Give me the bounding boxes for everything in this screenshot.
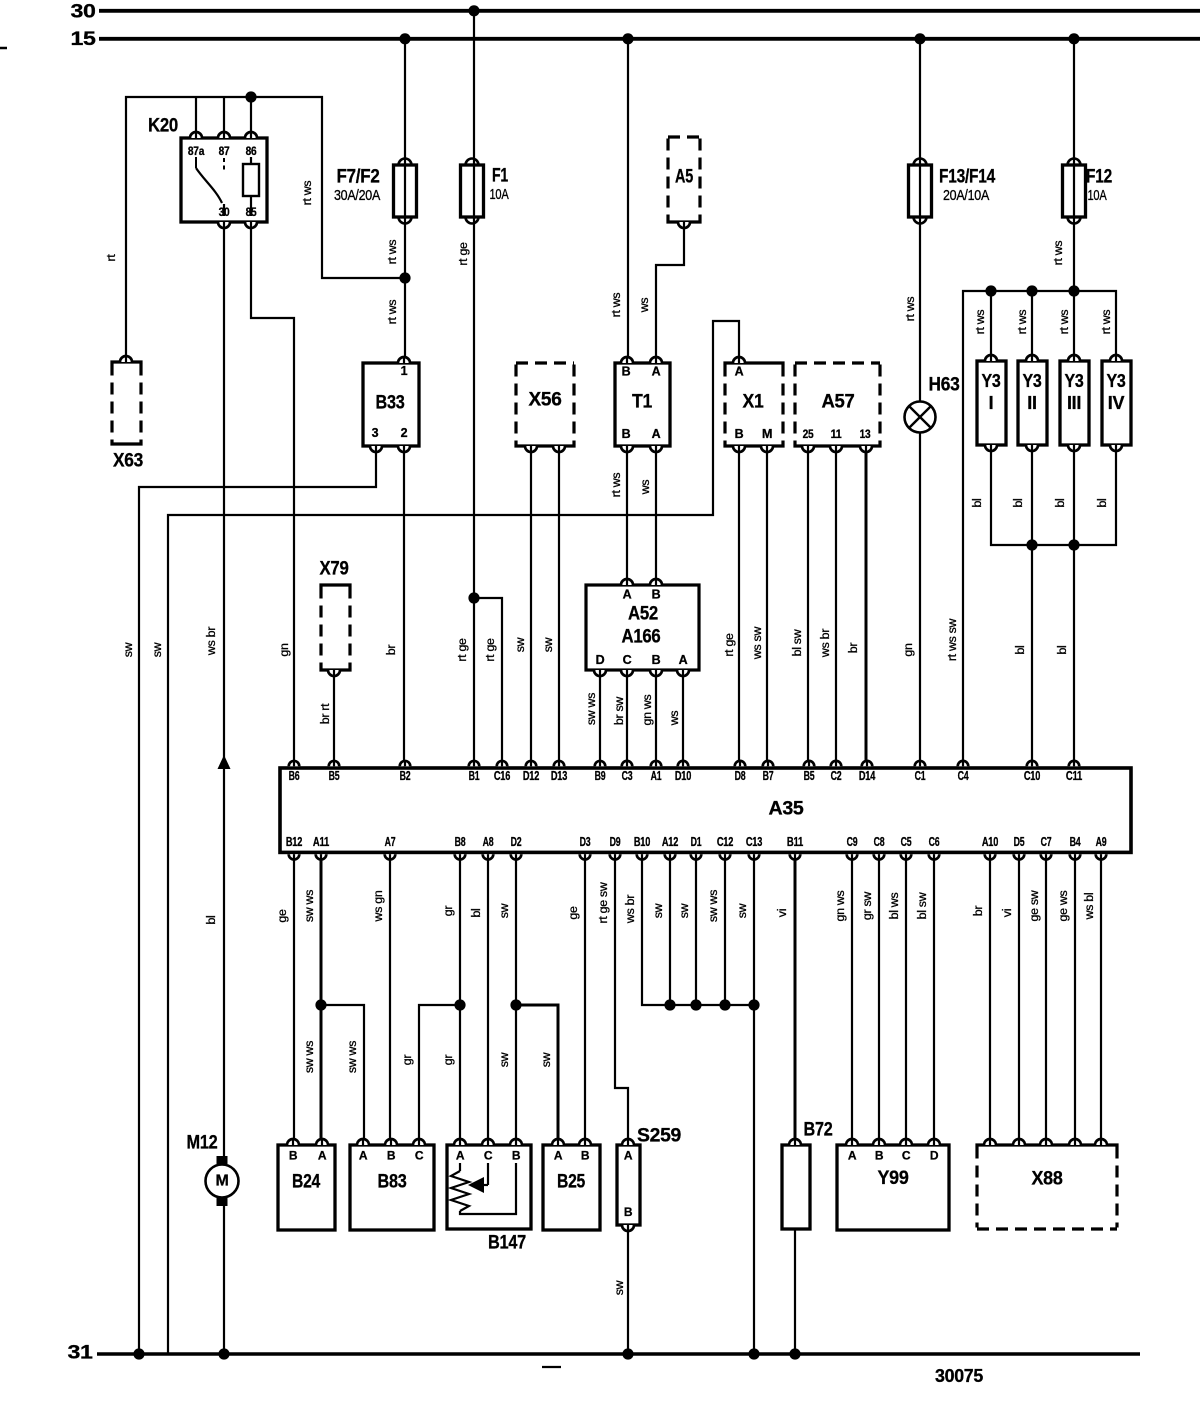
svg-text:ws br: ws br — [204, 627, 218, 656]
svg-text:bl ws: bl ws — [887, 893, 901, 920]
svg-text:A57: A57 — [822, 392, 855, 413]
svg-text:A9: A9 — [1096, 835, 1107, 849]
svg-text:gn ws: gn ws — [640, 694, 654, 725]
svg-text:C3: C3 — [622, 769, 633, 783]
svg-text:gr: gr — [400, 1055, 414, 1066]
svg-text:A10: A10 — [982, 835, 998, 849]
svg-text:C: C — [484, 1149, 493, 1163]
svg-text:C11: C11 — [1066, 769, 1082, 783]
svg-text:sw: sw — [497, 903, 511, 918]
svg-text:br: br — [846, 643, 860, 654]
svg-text:C: C — [902, 1149, 911, 1163]
svg-text:M12: M12 — [187, 1133, 218, 1154]
svg-text:rt ge: rt ge — [722, 633, 736, 657]
svg-text:D: D — [930, 1149, 939, 1163]
svg-text:B8: B8 — [455, 835, 466, 849]
svg-text:B: B — [581, 1149, 590, 1163]
svg-text:T1: T1 — [632, 392, 653, 413]
svg-text:F13/F14: F13/F14 — [939, 167, 996, 188]
svg-text:bl: bl — [1053, 498, 1067, 507]
svg-text:B: B — [289, 1149, 298, 1163]
svg-text:rt ws: rt ws — [1051, 241, 1065, 266]
svg-text:86: 86 — [246, 144, 257, 158]
svg-text:rt ws: rt ws — [1057, 310, 1071, 335]
svg-text:B2: B2 — [400, 769, 411, 783]
svg-text:rt ge sw: rt ge sw — [596, 882, 610, 923]
svg-text:F12: F12 — [1086, 167, 1112, 188]
svg-text:D3: D3 — [580, 835, 591, 849]
svg-text:C8: C8 — [874, 835, 885, 849]
svg-text:B12: B12 — [286, 835, 302, 849]
svg-text:vi: vi — [1000, 909, 1014, 917]
svg-text:F1: F1 — [492, 166, 509, 187]
svg-text:IV: IV — [1108, 393, 1125, 413]
svg-text:br: br — [971, 906, 985, 917]
svg-text:rt ws: rt ws — [385, 240, 399, 265]
svg-text:B: B — [652, 588, 661, 602]
svg-text:A: A — [359, 1149, 368, 1163]
svg-text:rt ws: rt ws — [1099, 310, 1113, 335]
svg-text:B: B — [735, 427, 744, 441]
svg-text:sw: sw — [539, 1052, 553, 1067]
svg-text:A: A — [679, 653, 688, 667]
svg-text:br: br — [384, 645, 398, 656]
svg-text:ge: ge — [275, 909, 289, 923]
svg-text:F7/F2: F7/F2 — [337, 167, 380, 188]
svg-text:B9: B9 — [595, 769, 606, 783]
svg-text:B: B — [652, 653, 661, 667]
svg-text:ws sw: ws sw — [750, 627, 764, 661]
svg-text:87a: 87a — [188, 144, 205, 158]
svg-text:B: B — [875, 1149, 884, 1163]
svg-text:ge: ge — [566, 906, 580, 920]
svg-text:15: 15 — [71, 29, 97, 50]
svg-text:sw: sw — [677, 903, 691, 918]
svg-text:D8: D8 — [735, 769, 746, 783]
svg-text:C9: C9 — [847, 835, 858, 849]
svg-text:sw: sw — [612, 1280, 626, 1295]
svg-text:gr: gr — [441, 906, 455, 917]
svg-text:11: 11 — [831, 427, 842, 441]
svg-text:2: 2 — [401, 426, 408, 440]
svg-text:X88: X88 — [1032, 1169, 1063, 1190]
svg-text:sw ws: sw ws — [584, 693, 598, 725]
svg-text:sw: sw — [150, 642, 164, 657]
svg-text:B: B — [622, 365, 631, 379]
svg-text:C12: C12 — [717, 835, 733, 849]
svg-text:B1: B1 — [469, 769, 480, 783]
svg-text:30A/20A: 30A/20A — [334, 188, 381, 204]
svg-text:B5: B5 — [804, 769, 815, 783]
svg-text:A: A — [624, 1149, 633, 1163]
svg-text:30: 30 — [71, 2, 96, 23]
svg-text:B7: B7 — [763, 769, 774, 783]
svg-text:rt ws: rt ws — [385, 300, 399, 325]
svg-text:bl: bl — [1013, 645, 1027, 654]
svg-text:sw ws: sw ws — [302, 890, 316, 922]
svg-text:87: 87 — [219, 144, 230, 158]
svg-text:sw ws: sw ws — [345, 1041, 359, 1073]
svg-text:B72: B72 — [804, 1120, 833, 1141]
svg-text:gn ws: gn ws — [833, 890, 847, 921]
svg-text:A: A — [735, 365, 744, 379]
svg-text:D13: D13 — [551, 769, 567, 783]
svg-text:A12: A12 — [662, 835, 678, 849]
svg-text:rt ws: rt ws — [973, 310, 987, 335]
svg-text:B5: B5 — [329, 769, 340, 783]
svg-text:sw: sw — [735, 903, 749, 918]
svg-text:sw ws: sw ws — [302, 1041, 316, 1073]
svg-text:B83: B83 — [378, 1172, 407, 1193]
svg-text:B33: B33 — [376, 393, 405, 414]
svg-text:II: II — [1027, 393, 1036, 413]
svg-text:ws: ws — [638, 480, 652, 496]
svg-text:A1: A1 — [651, 769, 662, 783]
svg-text:X79: X79 — [320, 559, 349, 580]
svg-text:B147: B147 — [488, 1233, 526, 1254]
svg-text:rt ws: rt ws — [1015, 310, 1029, 335]
svg-text:bl: bl — [1011, 498, 1025, 507]
svg-text:sw: sw — [513, 637, 527, 652]
svg-text:10A: 10A — [1088, 188, 1107, 204]
svg-text:C13: C13 — [746, 835, 762, 849]
svg-text:ws: ws — [667, 711, 681, 727]
svg-text:D2: D2 — [511, 835, 522, 849]
svg-text:C2: C2 — [831, 769, 842, 783]
svg-text:A7: A7 — [385, 835, 396, 849]
svg-text:D: D — [596, 653, 605, 667]
svg-text:Y3: Y3 — [982, 371, 1001, 391]
svg-text:B4: B4 — [1070, 835, 1081, 849]
svg-text:ge sw: ge sw — [1027, 890, 1041, 921]
svg-text:ws br: ws br — [818, 629, 832, 658]
svg-text:S259: S259 — [637, 1126, 681, 1147]
svg-text:rt: rt — [104, 254, 118, 262]
svg-text:Y3: Y3 — [1023, 371, 1042, 391]
svg-text:Y3: Y3 — [1107, 371, 1126, 391]
svg-text:bl: bl — [204, 915, 218, 924]
svg-text:D12: D12 — [523, 769, 539, 783]
svg-text:A: A — [848, 1149, 857, 1163]
svg-text:B6: B6 — [289, 769, 300, 783]
svg-text:A8: A8 — [483, 835, 494, 849]
svg-text:rt ws: rt ws — [609, 293, 623, 318]
svg-text:ge ws: ge ws — [1056, 890, 1070, 921]
svg-text:A: A — [652, 427, 661, 441]
svg-text:sw: sw — [541, 637, 555, 652]
svg-text:br sw: br sw — [612, 697, 626, 725]
svg-text:B: B — [387, 1149, 396, 1163]
svg-text:bl: bl — [970, 498, 984, 507]
svg-text:gr: gr — [441, 1055, 455, 1066]
svg-text:Y3: Y3 — [1065, 371, 1084, 391]
svg-text:C6: C6 — [929, 835, 940, 849]
svg-text:A35: A35 — [769, 799, 805, 820]
svg-text:C1: C1 — [915, 769, 926, 783]
svg-text:rt ge: rt ge — [455, 638, 469, 662]
svg-text:bl: bl — [1055, 645, 1069, 654]
svg-text:B10: B10 — [634, 835, 650, 849]
svg-text:3: 3 — [372, 426, 379, 440]
svg-text:M: M — [216, 1173, 229, 1190]
svg-text:rt ws: rt ws — [300, 181, 314, 206]
svg-text:rt ws sw: rt ws sw — [945, 618, 959, 661]
svg-text:bl: bl — [1095, 498, 1109, 507]
svg-text:B25: B25 — [557, 1172, 586, 1193]
svg-text:bl sw: bl sw — [915, 892, 929, 919]
svg-text:20A/10A: 20A/10A — [943, 188, 990, 204]
svg-text:C5: C5 — [901, 835, 912, 849]
svg-text:D1: D1 — [691, 835, 702, 849]
svg-text:gn: gn — [901, 643, 915, 657]
svg-text:10A: 10A — [490, 187, 509, 203]
svg-text:br rt: br rt — [318, 703, 332, 724]
svg-text:gn: gn — [277, 643, 291, 657]
svg-text:C: C — [415, 1149, 424, 1163]
svg-text:rt ge: rt ge — [456, 242, 470, 266]
svg-text:sw: sw — [497, 1052, 511, 1067]
svg-text:sw: sw — [651, 903, 665, 918]
svg-text:rt ws: rt ws — [903, 297, 917, 322]
svg-text:30075: 30075 — [935, 1366, 983, 1386]
svg-text:rt ws: rt ws — [609, 473, 623, 498]
svg-text:A11: A11 — [313, 835, 329, 849]
svg-text:B: B — [624, 1205, 633, 1219]
svg-text:vi: vi — [775, 909, 789, 917]
svg-text:X63: X63 — [113, 451, 143, 472]
svg-text:B24: B24 — [292, 1172, 321, 1193]
svg-text:25: 25 — [803, 427, 814, 441]
svg-text:sw: sw — [121, 642, 135, 657]
svg-text:D5: D5 — [1014, 835, 1025, 849]
svg-text:A52: A52 — [628, 604, 658, 625]
svg-text:gr sw: gr sw — [860, 892, 874, 920]
svg-text:A166: A166 — [622, 627, 661, 648]
svg-text:M: M — [762, 427, 772, 441]
svg-text:C: C — [623, 653, 632, 667]
svg-text:B11: B11 — [787, 835, 803, 849]
svg-text:C16: C16 — [494, 769, 510, 783]
svg-text:B: B — [512, 1149, 521, 1163]
svg-text:ws br: ws br — [623, 895, 637, 924]
svg-text:13: 13 — [860, 427, 871, 441]
svg-text:I: I — [989, 393, 994, 413]
svg-text:A5: A5 — [675, 167, 694, 188]
svg-text:1: 1 — [401, 364, 408, 378]
svg-text:D9: D9 — [610, 835, 621, 849]
svg-text:sw ws: sw ws — [706, 890, 720, 922]
svg-text:D10: D10 — [675, 769, 691, 783]
svg-text:III: III — [1067, 393, 1081, 413]
svg-text:A: A — [623, 588, 632, 602]
svg-text:C4: C4 — [958, 769, 969, 783]
svg-text:bl sw: bl sw — [790, 629, 804, 656]
svg-text:A: A — [554, 1149, 563, 1163]
svg-text:C7: C7 — [1041, 835, 1052, 849]
svg-text:B: B — [622, 427, 631, 441]
svg-text:rt ge: rt ge — [483, 638, 497, 662]
svg-text:A: A — [318, 1149, 327, 1163]
svg-text:A: A — [456, 1149, 465, 1163]
svg-text:Y99: Y99 — [878, 1168, 909, 1189]
svg-text:bl: bl — [469, 908, 483, 917]
svg-text:C10: C10 — [1024, 769, 1040, 783]
svg-text:ws bl: ws bl — [1082, 893, 1096, 921]
svg-text:ws gn: ws gn — [371, 890, 385, 922]
svg-text:ws: ws — [637, 298, 651, 314]
svg-text:X56: X56 — [529, 390, 562, 411]
svg-text:A: A — [652, 365, 661, 379]
svg-text:D14: D14 — [859, 769, 875, 783]
svg-text:H63: H63 — [929, 375, 960, 396]
svg-text:31: 31 — [68, 1343, 94, 1364]
svg-text:X1: X1 — [743, 392, 765, 413]
svg-text:K20: K20 — [148, 116, 178, 137]
